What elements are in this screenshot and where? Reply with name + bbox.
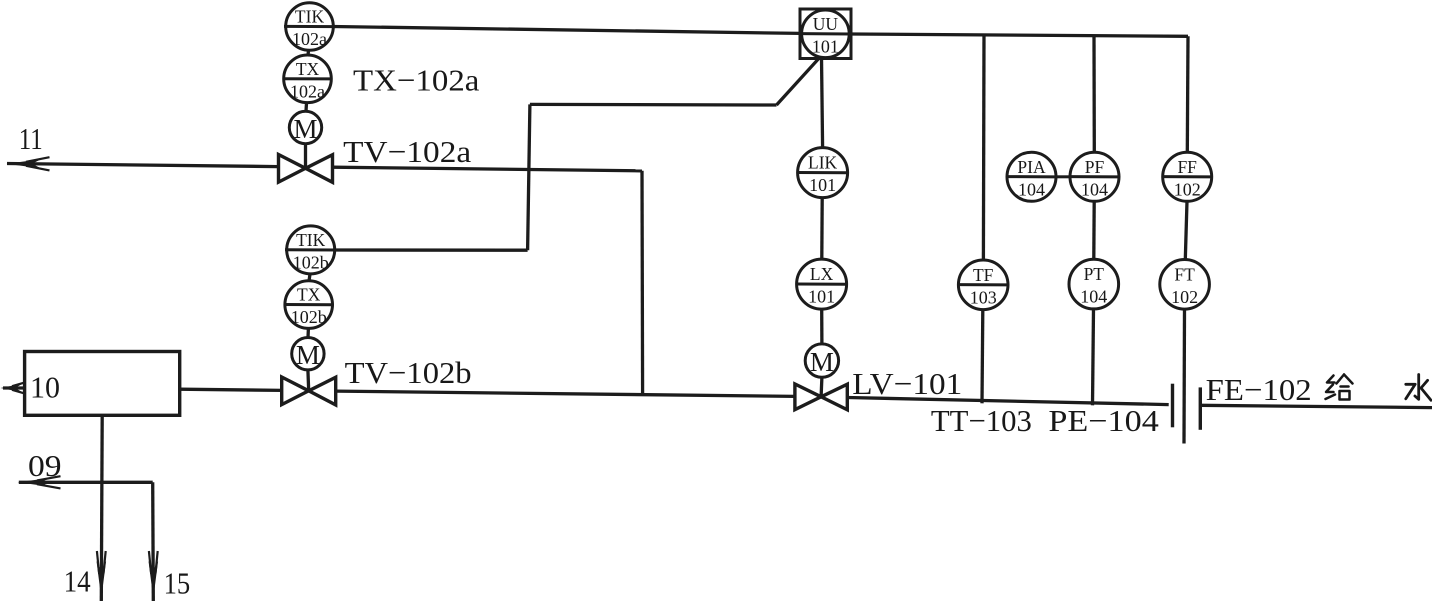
svg-text:101: 101 (809, 175, 836, 195)
svg-text:TIK: TIK (296, 230, 326, 250)
instrument LX-101 (796, 259, 847, 309)
pipe: stream 09 horizontal branch (19, 481, 153, 484)
svg-text:M: M (296, 340, 320, 370)
pipe: vessel 10 to TV-102b (180, 389, 283, 390)
valve TV-102a (279, 155, 333, 183)
pipe: TV-102b to LV-101 (336, 391, 795, 396)
instrument TIK-102b (285, 226, 337, 274)
arrow: stream 11 (7, 159, 42, 168)
wire: vertical drop to TF-103 (982, 34, 986, 260)
instrument TX-102a (283, 55, 333, 103)
svg-text:M: M (810, 347, 834, 377)
svg-text:10: 10 (30, 370, 60, 405)
wire: TIK-102b to TX-102b (309, 274, 310, 281)
svg-text:TX−102a: TX−102a (353, 63, 480, 98)
wire: PT-104 to main pipe (1093, 309, 1094, 406)
valve LV-101 (795, 384, 847, 410)
valve TV-102b (282, 377, 336, 405)
arrow: stream 15 (down) (149, 561, 159, 599)
pipe: branch down to stream 15 (151, 482, 155, 601)
vessel 10 (25, 352, 180, 416)
svg-text:102a: 102a (292, 29, 327, 49)
svg-text:14: 14 (64, 564, 91, 599)
wire: M stem to LV-101 valve (819, 377, 823, 397)
svg-text:LX: LX (810, 264, 834, 284)
wire: LX-101 to motor M of LV-101 (820, 309, 824, 344)
svg-text:LIK: LIK (808, 153, 838, 173)
wire: vertical drop to PF-104 (1092, 35, 1096, 152)
instrument PIA-104 (1007, 152, 1058, 201)
label: Chinese character SHUI (water) (1406, 375, 1431, 401)
arrow: stream 10 (1, 384, 23, 393)
instrument FF-102 (1162, 152, 1213, 201)
wire: PF-104 to PT-104 (1092, 201, 1096, 259)
wire: PIA-104 to PF-104 midline link (1056, 175, 1071, 178)
label: Chinese character GEI (feed) (1326, 375, 1353, 400)
svg-text:PE−104: PE−104 (1048, 403, 1159, 438)
pipe: TV-102a inlet line (333, 167, 643, 171)
wire: M stem to TV-102b valve (306, 370, 310, 391)
svg-text:104: 104 (1018, 179, 1045, 199)
wire: horizontal into TIK-102b (335, 248, 527, 251)
svg-text:104: 104 (1081, 179, 1108, 199)
wire: down from TV-102a line to main pipe (640, 171, 644, 395)
wire: FF-102 to FT-102 (1185, 201, 1187, 259)
svg-text:15: 15 (164, 566, 191, 601)
arrow: stream 14 (down) (97, 561, 107, 599)
svg-text:102: 102 (1171, 287, 1198, 307)
svg-text:102: 102 (1174, 179, 1201, 199)
instrument TF-103 (958, 260, 1009, 310)
pipe: LV-101 to orifice FE-102 (847, 398, 1168, 405)
wire: TX-102a to motor M (304, 103, 308, 112)
wire: TIK-102a to TX-102a (306, 50, 310, 55)
instrument PF-104 (1070, 152, 1121, 201)
svg-text:TV−102b: TV−102b (345, 355, 472, 390)
wire: top signal line from TIK-102a to right corner (333, 27, 800, 34)
orifice FE-102 left plate (1171, 384, 1174, 428)
pipe: feed water line right of orifice (1200, 405, 1432, 407)
wire: LIK-101 to LX-101 (820, 198, 824, 259)
wire: TF-103 to main pipe (980, 310, 984, 404)
svg-text:102a: 102a (290, 81, 325, 101)
wire: TX-102b to motor M (306, 328, 310, 337)
wire: corner drop down to FF-102 (1186, 36, 1190, 152)
svg-text:TIK: TIK (295, 7, 325, 27)
svg-text:TX: TX (297, 285, 321, 305)
svg-text:TX: TX (296, 59, 320, 79)
svg-text:UU: UU (813, 14, 839, 34)
instrument TX-102b (284, 281, 334, 329)
svg-text:102b: 102b (291, 307, 327, 327)
instrument TIK-102a (284, 3, 336, 51)
svg-text:FF: FF (1177, 157, 1197, 177)
wire: setpoint diagonal from UU-101 (777, 59, 819, 105)
wire: horizontal run at y=105 (530, 103, 777, 107)
svg-text:FE−102: FE−102 (1206, 372, 1312, 407)
svg-text:FT: FT (1174, 264, 1195, 284)
svg-text:102b: 102b (293, 252, 329, 272)
arrow: stream 09 (18, 478, 50, 487)
svg-text:09: 09 (28, 448, 62, 483)
svg-text:101: 101 (808, 287, 835, 307)
svg-text:PT: PT (1084, 264, 1105, 284)
wire: vertical run down to TIK-102b line (528, 104, 530, 250)
svg-text:M: M (293, 114, 317, 144)
svg-text:PIA: PIA (1017, 157, 1046, 177)
svg-text:11: 11 (19, 121, 43, 156)
svg-text:104: 104 (1080, 287, 1107, 307)
orifice FE-102 right plate (1199, 387, 1202, 429)
wire: UU-101 to LIK-101 (822, 57, 823, 147)
actuator M of TV-102b (292, 338, 324, 371)
svg-text:TT−103: TT−103 (931, 403, 1032, 438)
instrument UU-101 shared display (800, 9, 851, 59)
actuator M of TV-102a (289, 111, 321, 144)
svg-text:101: 101 (812, 36, 839, 56)
instrument FT-102 (1160, 260, 1210, 310)
wire: FT-102 lead through orifice (1182, 309, 1186, 443)
svg-text:TF: TF (973, 265, 994, 285)
pipe: TV-102a outlet to stream 11 arrow (7, 164, 279, 167)
actuator M of LV-101 (805, 344, 838, 377)
pipe: vessel 10 bottom drain to stream 14 (100, 415, 104, 601)
svg-text:LV−101: LV−101 (852, 366, 962, 401)
svg-text:PF: PF (1085, 157, 1105, 177)
svg-text:103: 103 (970, 287, 997, 307)
instrument LIK-101 (797, 148, 848, 198)
instrument PT-104 (1069, 259, 1119, 309)
vessel 10 pipe stub to stream 10 arrow (3, 386, 25, 389)
wire: M stem to TV-102a valve (304, 144, 307, 169)
svg-text:TV−102a: TV−102a (343, 134, 471, 169)
